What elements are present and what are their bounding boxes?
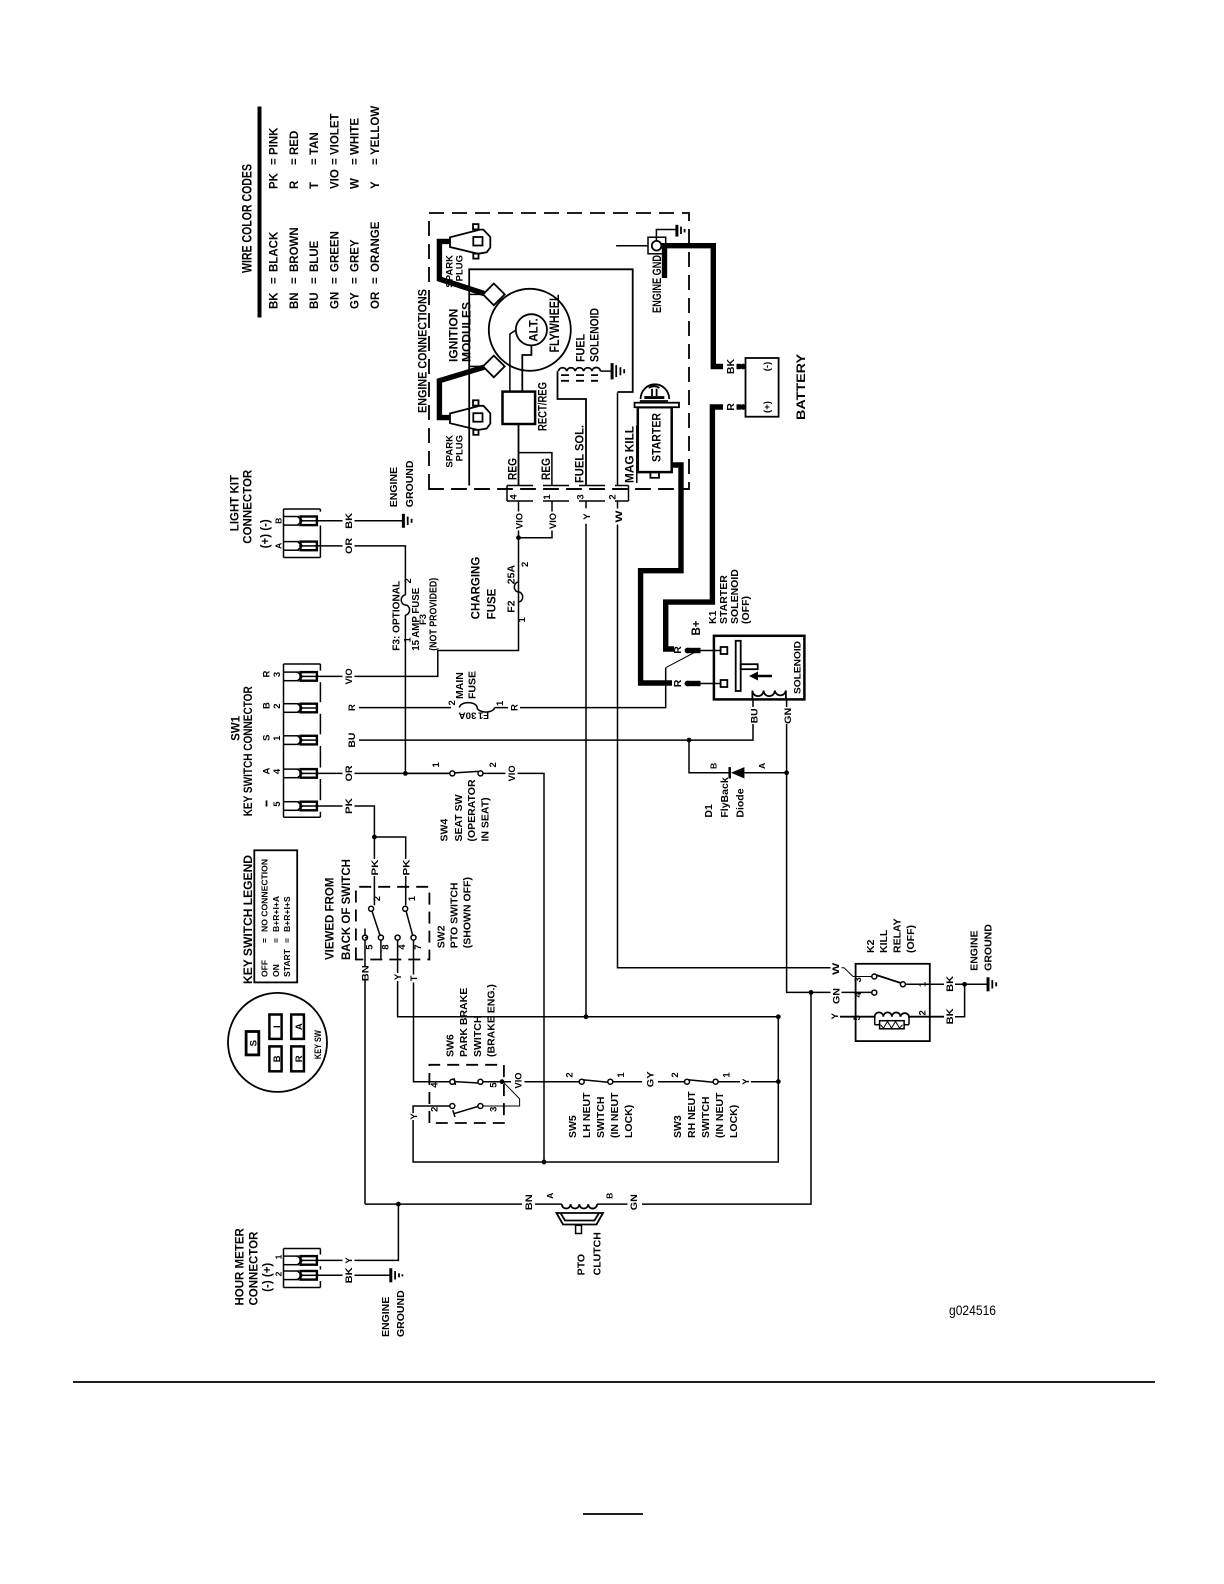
- svg-text:2: 2: [272, 703, 283, 708]
- svg-text:KILL: KILL: [878, 929, 890, 953]
- engine ground label light kit: [388, 460, 416, 507]
- svg-text:OFF: OFF: [260, 960, 270, 977]
- svg-text:SW2: SW2: [436, 925, 448, 948]
- K1 throw line: [666, 652, 697, 668]
- svg-text:SWITCH: SWITCH: [595, 1097, 607, 1138]
- starter flange inner line: [640, 400, 668, 402]
- SW4 contact 2: [478, 771, 483, 776]
- svg-text:RELAY: RELAY: [892, 918, 904, 953]
- R label below F1: [508, 700, 521, 715]
- svg-text:R: R: [289, 180, 301, 189]
- svg-text:A: A: [294, 1023, 305, 1030]
- viewed from back of switch label: [325, 859, 354, 960]
- ignition module 2 (left diamond): [469, 356, 505, 378]
- svg-text:8: 8: [381, 944, 392, 949]
- svg-text:BK: BK: [945, 976, 956, 992]
- legend line START: [282, 896, 292, 977]
- svg-text:ENGINE: ENGINE: [388, 467, 400, 507]
- BU wire SW1 pin1 to K1: [359, 699, 753, 740]
- K2 lever 3-1: [876, 975, 901, 983]
- svg-text:VIEWED FROM: VIEWED FROM: [325, 878, 337, 960]
- svg-text:W: W: [614, 510, 625, 522]
- svg-text:BLUE: BLUE: [309, 240, 321, 272]
- svg-text:4: 4: [509, 494, 520, 500]
- svg-text:NO CONNECTION: NO CONNECTION: [260, 859, 270, 932]
- svg-text:PLUG: PLUG: [455, 435, 466, 461]
- engine gnd bracket: [648, 237, 666, 254]
- svg-text:Y: Y: [582, 513, 593, 520]
- svg-text:4: 4: [397, 944, 408, 950]
- svg-text:5: 5: [489, 1082, 500, 1088]
- fuel solenoid label: [574, 308, 602, 362]
- legend row BU = BLUE: [309, 240, 321, 309]
- charging fuse F2 squiggle: [514, 582, 522, 602]
- BK label light kit: [343, 512, 356, 530]
- reg wire from rect/reg: [518, 424, 520, 486]
- svg-text:BN: BN: [361, 965, 372, 981]
- svg-text:1: 1: [272, 735, 283, 741]
- svg-text:VIOLET: VIOLET: [329, 113, 341, 155]
- svg-text:3: 3: [853, 977, 864, 982]
- starter thick cable: [641, 465, 681, 683]
- legend row BK = BLACK: [268, 231, 280, 309]
- svg-text:T: T: [309, 182, 321, 189]
- svg-text:R: R: [347, 704, 358, 711]
- legend row W = WHITE: [350, 118, 362, 189]
- svg-text:=: =: [289, 158, 301, 165]
- svg-text:1: 1: [273, 1254, 283, 1259]
- svg-text:T: T: [409, 975, 420, 981]
- key switch tab R: [291, 1046, 305, 1071]
- VIO to Y loop junction: [542, 1160, 547, 1165]
- svg-text:PINK: PINK: [268, 127, 280, 155]
- svg-text:4: 4: [853, 992, 864, 998]
- OR wire SW1 pin4: [317, 772, 451, 774]
- SW3 contact pin1: [713, 1079, 718, 1084]
- legend row Y = YELLOW: [370, 106, 382, 189]
- svg-text:3: 3: [489, 1107, 500, 1112]
- svg-text:S: S: [249, 1040, 260, 1046]
- svg-text:KEY SWITCH CONNECTOR: KEY SWITCH CONNECTOR: [243, 686, 255, 817]
- K1 pin square left: [721, 680, 728, 687]
- svg-text:PLUG: PLUG: [455, 255, 466, 281]
- svg-text:REG: REG: [539, 458, 553, 480]
- engine gnd thick stub: [662, 248, 667, 278]
- K2 contact pin3: [872, 974, 877, 979]
- svg-text:g024516: g024516: [949, 1303, 996, 1318]
- svg-text:IN SEAT): IN SEAT): [480, 797, 492, 841]
- engine gnd terminal circle: [652, 241, 662, 251]
- svg-text:Y: Y: [830, 1012, 841, 1019]
- BN wire from SW2 pin5: [365, 938, 367, 1205]
- svg-text:PARK BRAKE: PARK BRAKE: [458, 988, 470, 1057]
- main fuse R wire: [359, 668, 666, 712]
- svg-text:RH NEUT: RH NEUT: [686, 1091, 698, 1138]
- svg-text:BK: BK: [268, 292, 280, 309]
- footer short line: [583, 1513, 643, 1515]
- SW3 lever: [689, 1080, 713, 1082]
- SW2 pin5 stub: [364, 929, 366, 936]
- PTO clutch feed wire: [365, 992, 811, 1204]
- svg-text:PTO SWITCH: PTO SWITCH: [449, 882, 461, 948]
- legend line OFF: [260, 859, 270, 977]
- svg-text:(BRAKE ENG.): (BRAKE ENG.): [486, 984, 498, 1057]
- svg-text:ENGINE: ENGINE: [380, 1297, 392, 1337]
- battery negative terminal dot: [740, 364, 746, 370]
- W label near strip: [611, 509, 625, 525]
- svg-text:Y: Y: [393, 973, 404, 980]
- hour meter terminal 1: [284, 1256, 317, 1265]
- spark plug 1 (right): [450, 224, 490, 259]
- svg-text:SWITCH: SWITCH: [700, 1097, 712, 1138]
- SW4 lever: [455, 771, 479, 773]
- K2 BK junction dot: [962, 982, 967, 987]
- legend row OR = ORANGE: [370, 221, 382, 309]
- BK wire light kit: [317, 520, 403, 522]
- svg-text:IGNITION: IGNITION: [447, 309, 461, 362]
- svg-text:=: =: [370, 158, 382, 165]
- key switch tab A: [291, 1015, 305, 1039]
- engine gnd ground symbol: [677, 225, 685, 237]
- engine gnd ground arm: [656, 230, 675, 242]
- key switch legend box: [254, 850, 297, 982]
- engine connections label: [416, 289, 430, 413]
- SW6 park brake dashed box: [429, 1065, 504, 1123]
- svg-text:RED: RED: [289, 131, 301, 155]
- svg-text:BK: BK: [945, 1008, 956, 1024]
- svg-text:YELLOW: YELLOW: [370, 106, 382, 155]
- svg-text:SW1: SW1: [230, 715, 242, 741]
- svg-text:TAN: TAN: [309, 132, 321, 155]
- starter terminal square: [650, 472, 659, 478]
- svg-text:CLUTCH: CLUTCH: [592, 1232, 604, 1275]
- key switch tab B: [269, 1046, 282, 1071]
- svg-text:(SHOWN OFF): (SHOWN OFF): [462, 877, 474, 948]
- svg-text:=: =: [271, 938, 281, 943]
- svg-text:2: 2: [403, 578, 414, 583]
- SW2 label: [436, 877, 474, 948]
- GN junction dot to clutch: [809, 990, 814, 995]
- svg-text:=: =: [260, 938, 270, 943]
- SW2 lever 1-7: [406, 911, 413, 935]
- SW2 contact pin8: [378, 935, 383, 940]
- key switch tab S: [246, 1032, 260, 1055]
- chain Y junction dot: [776, 1079, 781, 1084]
- T wire from SW2 pin7: [414, 940, 451, 1082]
- spark plug 1 label: [445, 255, 466, 288]
- svg-text:LIGHT KIT: LIGHT KIT: [230, 475, 242, 531]
- svg-text:OR: OR: [370, 291, 382, 309]
- svg-text:SWITCH: SWITCH: [472, 1016, 484, 1057]
- svg-text:3: 3: [576, 494, 587, 499]
- starter dome: [641, 384, 670, 399]
- D1 diode symbol: [730, 767, 745, 778]
- svg-text:KEY SW: KEY SW: [313, 1030, 324, 1059]
- svg-text:2: 2: [917, 1010, 928, 1015]
- SW2 contact pin5: [363, 935, 368, 940]
- svg-text:A: A: [262, 767, 273, 774]
- svg-text:FLYWHEEL: FLYWHEEL: [547, 295, 562, 353]
- D1 junction dot: [687, 738, 692, 743]
- R label at key switch: [346, 700, 359, 715]
- svg-text:2: 2: [429, 1107, 440, 1112]
- svg-text:(NOT PROVIDED): (NOT PROVIDED): [428, 578, 440, 651]
- SW6 contact pin4: [450, 1079, 455, 1084]
- hour meter BK wire: [317, 1274, 390, 1276]
- VIO label SW1 pin3: [343, 667, 356, 686]
- svg-text:R: R: [672, 646, 684, 654]
- VIO label pin1 wire: [545, 512, 559, 531]
- svg-text:GREY: GREY: [350, 239, 362, 272]
- svg-text:LOCK): LOCK): [623, 1105, 635, 1138]
- Y node junction dot: [584, 1014, 589, 1019]
- svg-text:2: 2: [608, 494, 619, 499]
- SW2 lever 2-8: [372, 911, 380, 935]
- svg-text:ENGINE CONNECTIONS: ENGINE CONNECTIONS: [416, 289, 430, 413]
- svg-text:CONNECTOR: CONNECTOR: [248, 1231, 260, 1306]
- svg-text:B+: B+: [691, 620, 703, 635]
- K1 coil: [752, 691, 786, 700]
- svg-text:(-): (-): [762, 362, 773, 372]
- svg-text:ENGINE: ENGINE: [969, 931, 981, 971]
- SW3 label: [672, 1091, 740, 1138]
- interlock chain wire: [502, 1081, 778, 1083]
- svg-text:=: =: [289, 277, 301, 284]
- svg-text:W: W: [831, 963, 842, 975]
- legend row VIO = VIOLET: [329, 113, 341, 189]
- VIO wire pin 4 to junction: [518, 501, 520, 538]
- legend row PK = PINK: [268, 127, 280, 189]
- K1 plunger arrow: [749, 672, 772, 681]
- fuel solenoid ground stem: [601, 370, 612, 372]
- svg-text:BK: BK: [725, 359, 737, 375]
- fuel solenoid core dashes: [561, 375, 598, 381]
- Y K2 junction dot: [776, 1014, 781, 1019]
- svg-text:FUEL: FUEL: [574, 334, 588, 362]
- SW6 contact pin5: [478, 1079, 483, 1084]
- page rule: [73, 1381, 1155, 1383]
- svg-text:K2: K2: [865, 939, 877, 953]
- Y loop bottom run: [544, 1082, 778, 1162]
- svg-text:SEAT SW: SEAT SW: [453, 794, 465, 841]
- battery positive terminal dot: [740, 404, 746, 410]
- SW5 contact pin2: [579, 1079, 584, 1084]
- svg-text:GN: GN: [783, 708, 794, 724]
- svg-text:BU: BU: [750, 708, 761, 723]
- svg-text:1: 1: [616, 1072, 627, 1078]
- svg-text:1: 1: [495, 700, 506, 706]
- svg-text:Diode: Diode: [735, 788, 747, 817]
- svg-text:SW5: SW5: [567, 1115, 579, 1138]
- engine box bottom dashed edge through strip: [429, 488, 689, 490]
- svg-text:=: =: [268, 277, 280, 284]
- svg-text:15 AMP FUSE: 15 AMP FUSE: [410, 588, 422, 651]
- svg-text:REG: REG: [506, 458, 520, 480]
- svg-text:CHARGING: CHARGING: [471, 557, 483, 620]
- svg-text:1: 1: [431, 762, 442, 768]
- svg-text:PK: PK: [402, 859, 413, 875]
- wire color codes legend underline: [258, 107, 262, 318]
- svg-text:B+R+I+S: B+R+I+S: [282, 896, 292, 932]
- SW4 seat switch wire upper: [405, 772, 450, 774]
- svg-text:OR: OR: [344, 538, 355, 554]
- OR junction node: [403, 771, 408, 776]
- svg-text:(OFF): (OFF): [740, 596, 752, 624]
- svg-text:Y: Y: [741, 1078, 752, 1085]
- rect/reg box: [503, 392, 536, 424]
- svg-text:5: 5: [272, 801, 283, 807]
- K2 kill relay box: [856, 964, 930, 1041]
- W mag kill wire long run: [618, 393, 831, 968]
- SW5 lever: [584, 1080, 608, 1082]
- svg-text:R: R: [725, 403, 737, 411]
- SW1 connector bracket: [284, 664, 321, 817]
- svg-text:FlyBack: FlyBack: [719, 777, 731, 817]
- svg-text:R: R: [510, 704, 521, 711]
- svg-text:1: 1: [517, 617, 528, 623]
- svg-text:WHITE: WHITE: [350, 118, 362, 155]
- svg-text:2: 2: [273, 1271, 283, 1276]
- svg-text:GN: GN: [832, 988, 843, 1004]
- K2 contact pin1: [900, 982, 905, 987]
- svg-text:ALT.: ALT.: [529, 318, 541, 341]
- battery box: [746, 358, 779, 417]
- K2 coil: [840, 1012, 944, 1016]
- starter body: [638, 407, 672, 472]
- SW6 contact pin3: [478, 1104, 483, 1109]
- key switch face circle: [228, 993, 327, 1092]
- svg-text:S: S: [262, 735, 273, 741]
- K2 label: [865, 918, 917, 953]
- svg-text:D1: D1: [703, 804, 715, 818]
- svg-text:FUEL SOL.: FUEL SOL.: [575, 425, 587, 483]
- svg-text:ORANGE: ORANGE: [370, 221, 382, 272]
- svg-text:2: 2: [488, 762, 499, 767]
- SW1 terminal pin4: [284, 769, 317, 778]
- light kit ground symbol: [403, 514, 411, 528]
- hour meter ground symbol: [391, 1268, 403, 1282]
- Y label hour meter: [343, 1253, 356, 1268]
- hour meter label: [235, 1228, 275, 1306]
- battery terminal labels: [762, 362, 773, 413]
- SW6 lever 4-5: [454, 1078, 478, 1085]
- SW2 contact pin1: [403, 906, 408, 911]
- hour meter terminal 2: [284, 1271, 317, 1280]
- svg-text:B: B: [709, 763, 719, 769]
- svg-text:LH NEUT: LH NEUT: [581, 1092, 593, 1138]
- svg-text:BN: BN: [524, 1194, 535, 1210]
- svg-text:(IN NEUT: (IN NEUT: [609, 1092, 621, 1138]
- VIO wire SW1 pin3 to charging fuse: [317, 538, 519, 677]
- K2 pin2 BK wire: [955, 984, 965, 1016]
- OR label SW1: [343, 765, 356, 783]
- svg-text:OR: OR: [344, 765, 355, 781]
- svg-text:4: 4: [429, 1082, 440, 1088]
- hour meter bracket: [284, 1249, 321, 1288]
- GN label at K1: [780, 707, 794, 724]
- svg-text:3: 3: [272, 672, 283, 677]
- svg-text:PK: PK: [344, 798, 355, 814]
- K1 contact bar T: [736, 641, 758, 691]
- svg-text:W: W: [350, 178, 362, 189]
- PK branch junction: [372, 835, 377, 840]
- svg-text:SW6: SW6: [444, 1034, 456, 1057]
- K2 pin1 BK wire: [905, 983, 987, 985]
- svg-text:R: R: [262, 670, 273, 677]
- Y link chain to K2: [777, 1017, 779, 1082]
- svg-text:WIRE COLOR CODES: WIRE COLOR CODES: [240, 164, 255, 273]
- alternator wire 1: [510, 330, 516, 392]
- svg-text:B: B: [262, 702, 273, 709]
- light kit terminal A: [284, 542, 317, 551]
- spark plug 2 label: [445, 435, 466, 468]
- svg-text:BU: BU: [347, 732, 358, 747]
- svg-text:VIO: VIO: [329, 169, 341, 189]
- SW1 terminal pin2: [284, 704, 317, 713]
- svg-text:(OFF): (OFF): [905, 925, 917, 953]
- svg-text:GROUND: GROUND: [404, 460, 416, 507]
- svg-text:1: 1: [407, 895, 418, 901]
- PK label SW1: [343, 797, 356, 815]
- engine ground label hour meter: [380, 1290, 407, 1337]
- SW2 PTO switch dashed box: [356, 887, 430, 960]
- SW6 node dot: [500, 1079, 505, 1084]
- junction node VIO: [516, 535, 521, 540]
- svg-text:KEY SWITCH LEGEND: KEY SWITCH LEGEND: [241, 855, 255, 984]
- battery R thick wire: [666, 407, 741, 649]
- svg-text:B+R+I+A: B+R+I+A: [271, 896, 281, 932]
- svg-text:SW3: SW3: [672, 1115, 684, 1138]
- svg-text:R: R: [294, 1055, 305, 1062]
- svg-text:SOLENOID: SOLENOID: [793, 641, 804, 694]
- svg-text:=: =: [370, 277, 382, 284]
- GN wire K1 to K2: [787, 699, 873, 992]
- svg-text:HOUR METER: HOUR METER: [235, 1228, 247, 1306]
- svg-text:7: 7: [413, 944, 424, 949]
- SW1 terminal pin3: [284, 672, 317, 681]
- legend row R = RED: [289, 131, 301, 189]
- PTO clutch stem: [576, 1225, 582, 1233]
- legend line ON: [271, 896, 281, 977]
- svg-text:GROUND: GROUND: [395, 1290, 407, 1337]
- svg-text:B: B: [272, 1055, 283, 1062]
- svg-text:Y: Y: [370, 181, 382, 189]
- svg-text:2: 2: [447, 700, 458, 705]
- SW6 pin2 wire: [413, 1106, 544, 1162]
- svg-text:Y: Y: [344, 1257, 355, 1264]
- BK label hour meter: [343, 1266, 356, 1284]
- svg-text:=: =: [329, 277, 341, 284]
- svg-text:BROWN: BROWN: [289, 227, 301, 272]
- svg-text:1: 1: [721, 1072, 732, 1078]
- svg-text:B: B: [273, 518, 283, 524]
- fuel solenoid ground: [612, 363, 624, 379]
- svg-text:MODULES: MODULES: [460, 302, 474, 362]
- Y label fuel sol wire: [580, 509, 593, 524]
- OR label light kit: [343, 537, 356, 555]
- svg-text:B: B: [604, 1193, 614, 1199]
- light kit connector bracket: [284, 509, 321, 558]
- svg-text:R: R: [672, 679, 684, 687]
- wire color codes legend title: [240, 164, 255, 273]
- svg-text:=: =: [268, 158, 280, 165]
- light kit connector label: [230, 469, 272, 548]
- K1 starter solenoid box: [714, 636, 805, 700]
- svg-text:ON: ON: [271, 964, 281, 977]
- svg-text:A: A: [273, 543, 283, 549]
- D1 anode junction dot: [784, 770, 789, 775]
- K2 contact pin4: [872, 990, 877, 995]
